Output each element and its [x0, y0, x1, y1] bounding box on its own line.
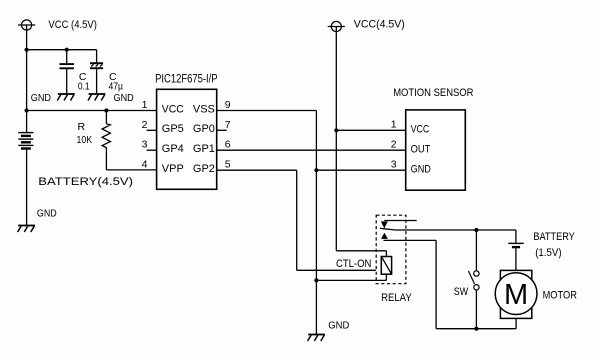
- wire SW bottom: [475, 290, 477, 329]
- wire coil top feed from VCC: [336, 250, 386, 252]
- battery B1 BATTERY(4.5V): [18, 132, 33, 134]
- svg-text:VCC: VCC: [411, 123, 430, 135]
- IC U1 PIC12F675-I/P box: [157, 89, 217, 189]
- svg-text:1: 1: [391, 119, 397, 131]
- svg-text:GND: GND: [114, 92, 135, 104]
- svg-text:CTL-ON: CTL-ON: [336, 258, 371, 270]
- svg-text:3: 3: [142, 139, 148, 151]
- wire GP2 vertical: [296, 170, 298, 270]
- junction sensor VCC tap: [334, 128, 338, 132]
- ground bottom-left: [18, 225, 35, 227]
- wire NO contact down to bottom rail: [435, 240, 437, 328]
- svg-text:VCC: VCC: [162, 103, 184, 115]
- svg-text:GP4: GP4: [162, 143, 184, 155]
- pin 2 stub GP5: [147, 129, 157, 131]
- relay contact NO stub: [384, 239, 437, 241]
- motor M1: [500, 270, 531, 318]
- junction coil GND tap: [314, 278, 318, 282]
- svg-text:0.1: 0.1: [78, 81, 90, 93]
- junction resistor R top: [104, 108, 108, 112]
- wire CTL-ON stub to relay: [297, 269, 376, 271]
- relay dashed enclosure: [376, 215, 406, 284]
- motion sensor box: [406, 110, 466, 190]
- svg-text:6: 6: [225, 139, 231, 151]
- svg-text:R: R: [78, 121, 86, 133]
- wire relay common to battery: [395, 229, 516, 231]
- svg-text:47µ: 47µ: [109, 81, 124, 93]
- svg-text:10K: 10K: [77, 134, 93, 146]
- wire bottom rail: [436, 328, 516, 330]
- wire GP1 pin 6 to sensor OUT: [217, 149, 406, 151]
- capacitor C2 47u electrolytic: [96, 50, 98, 63]
- svg-text:GND: GND: [328, 319, 349, 331]
- svg-text:GND: GND: [411, 163, 431, 175]
- wire VPP pin 4 line: [106, 169, 156, 171]
- wire motor bottom stub: [515, 318, 517, 328]
- junction sensor GND tap: [314, 168, 318, 172]
- svg-text:VPP: VPP: [162, 163, 184, 175]
- junction SW branch top: [474, 228, 478, 232]
- svg-text:BATTERY(4.5V): BATTERY(4.5V): [38, 176, 133, 188]
- capacitor C1 0.1: [66, 50, 68, 64]
- relay contact blade: [380, 228, 396, 230]
- svg-text:GP1: GP1: [193, 143, 215, 155]
- svg-text:5: 5: [225, 159, 231, 171]
- power flag VCC2 (4.5V) top-center: [331, 21, 341, 31]
- svg-text:2: 2: [142, 119, 148, 131]
- svg-text:GND: GND: [37, 208, 57, 220]
- junction battery top: [25, 108, 29, 112]
- wire battery negative to ground: [26, 150, 28, 225]
- svg-text:VCC (4.5V): VCC (4.5V): [48, 19, 97, 31]
- relay contact NC stub with down arrow: [384, 220, 416, 222]
- ground center: [308, 334, 325, 336]
- svg-text:OUT: OUT: [411, 143, 431, 155]
- wire coil bottom to GND: [385, 274, 387, 280]
- svg-text:GP2: GP2: [193, 163, 215, 175]
- wire GP2 pin 5 horizontal: [217, 169, 297, 171]
- svg-text:9: 9: [225, 99, 231, 111]
- svg-text:GND: GND: [31, 92, 52, 104]
- svg-text:MOTION SENSOR: MOTION SENSOR: [393, 87, 473, 99]
- svg-text:VCC(4.5V): VCC(4.5V): [354, 19, 405, 31]
- junction VCC rail left: [25, 48, 29, 52]
- wire sensor VCC pin 1: [336, 129, 405, 131]
- switch SW: [474, 271, 479, 276]
- relay coil K1: [381, 257, 391, 275]
- svg-text:2: 2: [391, 139, 397, 151]
- wire VCC rail to PIC pin 1: [27, 110, 157, 112]
- pin 3 stub GP4: [147, 149, 157, 151]
- svg-text:4: 4: [142, 159, 148, 171]
- ground under C1: [58, 93, 75, 95]
- svg-text:PIC12F675-I/P: PIC12F675-I/P: [155, 74, 218, 86]
- svg-text:GP0: GP0: [193, 123, 215, 135]
- pin 7 stub GP0: [217, 129, 227, 131]
- power flag VCC1 (4.5V) top-left: [22, 20, 32, 30]
- relay contact NO up arrow: [381, 233, 388, 239]
- battery B2 BATTERY(1.5V): [508, 242, 523, 244]
- wire battery B2 to motor: [515, 248, 517, 270]
- wire SW top: [475, 230, 477, 271]
- svg-text:M: M: [504, 279, 528, 311]
- wire VCC1 vertical down to battery: [26, 25, 28, 133]
- wire VSS pin 9 horizontal: [217, 110, 317, 112]
- junction SW branch bottom: [474, 327, 478, 331]
- svg-text:3: 3: [391, 159, 397, 171]
- svg-text:RELAY: RELAY: [381, 292, 412, 304]
- svg-text:SW: SW: [454, 286, 469, 298]
- junction capacitor C1 tap: [65, 48, 69, 52]
- svg-text:GP5: GP5: [162, 123, 184, 135]
- wire VCC2 vertical: [335, 27, 337, 251]
- wire GND vertical net: [315, 111, 317, 334]
- wire down to battery B2: [515, 230, 517, 243]
- svg-text:BATTERY: BATTERY: [533, 231, 575, 243]
- wire sensor GND pin 3: [316, 169, 405, 171]
- svg-text:MOTOR: MOTOR: [543, 290, 577, 302]
- svg-text:7: 7: [225, 119, 231, 131]
- svg-text:(1.5V): (1.5V): [535, 247, 561, 259]
- ground under C2: [89, 93, 106, 95]
- svg-text:1: 1: [142, 99, 148, 111]
- svg-text:VSS: VSS: [193, 103, 215, 115]
- resistor R 10K: [105, 111, 107, 124]
- wire top rail to capacitors: [27, 49, 97, 51]
